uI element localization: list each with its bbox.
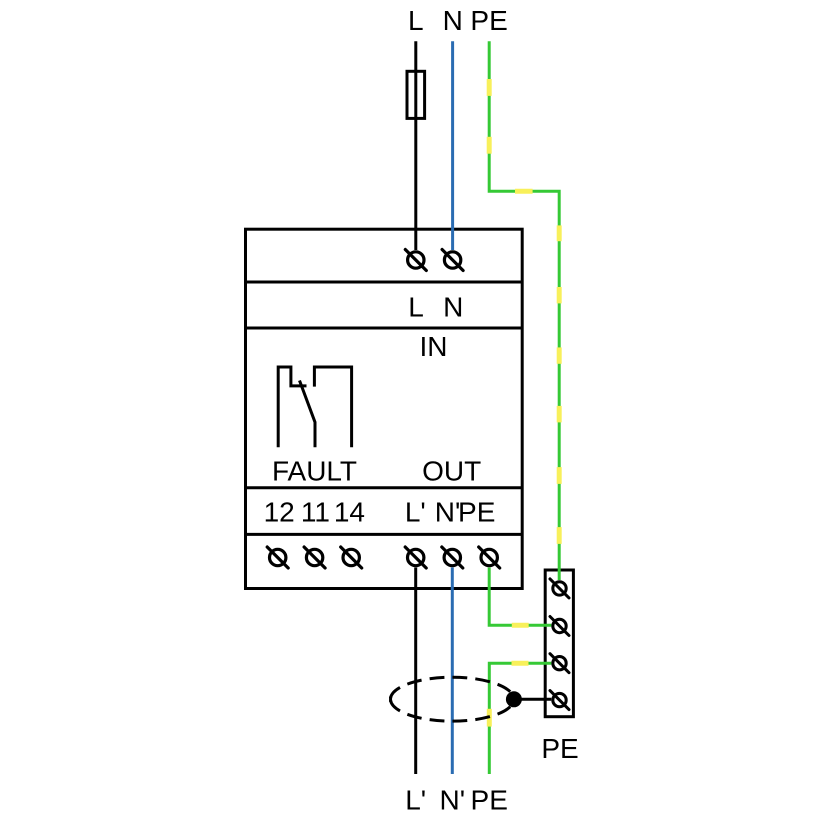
block screw 1 [550, 579, 569, 598]
divider above 12 11 14 row [246, 486, 523, 489]
divider under input terminals [246, 281, 523, 284]
wire L supply [414, 41, 417, 250]
svg-text:L: L [408, 291, 424, 322]
svg-text:11: 11 [301, 496, 330, 527]
block screw 2 [550, 617, 569, 636]
terminal screw N input [442, 250, 463, 271]
svg-text:PE: PE [471, 784, 508, 815]
svg-text:N: N [443, 291, 463, 322]
wire PE output to block screw 2 green [489, 568, 551, 626]
wire PE supply green [489, 41, 559, 580]
svg-text:12: 12 [264, 496, 295, 527]
bond wire dot to PE block [514, 698, 551, 701]
fuse F1 [407, 71, 425, 118]
cable sheath ellipse bottom arc [391, 699, 514, 721]
relay contact pin 12 with NC bar [278, 367, 306, 447]
terminal screw 11 [304, 547, 325, 568]
divider above output terminals [246, 533, 523, 536]
PE terminal block [545, 570, 573, 717]
block screw 3 [550, 654, 569, 673]
svg-text:FAULT: FAULT [272, 455, 357, 486]
svg-text:L': L' [405, 784, 426, 815]
svg-text:L': L' [405, 496, 426, 527]
svg-text:PE: PE [458, 496, 495, 527]
svg-text:PE: PE [470, 5, 507, 36]
wire PE output yellow dash [512, 623, 529, 628]
cable sheath ellipse top arc [391, 677, 514, 699]
svg-text:PE: PE [541, 733, 578, 764]
cable sheath ellipse left tip [389, 697, 392, 702]
relay contact blade and pin 11 [300, 381, 316, 448]
svg-text:L: L [408, 5, 424, 36]
divider under L N row [246, 327, 523, 330]
terminal screw L input [405, 250, 426, 271]
wire L' output [414, 568, 417, 775]
svg-text:N: N [443, 5, 463, 36]
terminal screw 14 [341, 547, 362, 568]
terminal screw N' [442, 547, 463, 568]
svg-text:N': N' [440, 784, 466, 815]
terminal screw PE output [479, 547, 500, 568]
svg-text:OUT: OUT [422, 455, 481, 486]
wire PE from block screw 3 down green [489, 663, 551, 774]
device box U1 [246, 229, 523, 588]
wire PE down yellow dashes [489, 663, 528, 726]
svg-text:IN: IN [420, 331, 448, 362]
svg-text:14: 14 [334, 496, 365, 527]
wire PE supply yellow dashes [489, 79, 559, 544]
wire N supply [451, 41, 454, 250]
junction dot [506, 691, 522, 707]
svg-text:N': N' [435, 496, 461, 527]
terminal screw L' [405, 547, 426, 568]
block screw 4 [550, 691, 569, 710]
relay contact NO stub and pin 14 [314, 367, 351, 447]
terminal screw 12 [267, 547, 288, 568]
wire N' output [451, 568, 454, 775]
